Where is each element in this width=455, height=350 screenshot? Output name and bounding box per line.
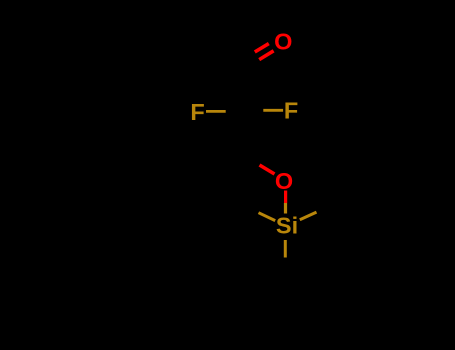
svg-text:Si: Si	[276, 213, 298, 239]
bond O2-Si (gold half near Si)	[284, 203, 287, 214]
bond C3-F2 (gold half near F2)	[263, 109, 283, 112]
svg-text:F: F	[190, 99, 204, 125]
bond Si-CH3 right (gold half near Si)	[300, 212, 317, 220]
bond Si-C down (gold half near Si)	[284, 240, 287, 258]
bond F1-C3 (gold half near F1)	[206, 110, 226, 113]
bond C2=O1 double bond (red half near O), second line	[255, 44, 269, 52]
svg-text:O: O	[275, 168, 293, 194]
svg-text:O: O	[274, 28, 292, 54]
bond Si-CH3 left (gold half near Si)	[259, 213, 276, 221]
bond O2-Si (red half near O2)	[284, 191, 287, 204]
svg-text:F: F	[284, 98, 298, 124]
bond C2=O1 double bond (red half near O), main line	[259, 51, 273, 60]
bond C4-O2 (red half near O2)	[260, 165, 275, 174]
